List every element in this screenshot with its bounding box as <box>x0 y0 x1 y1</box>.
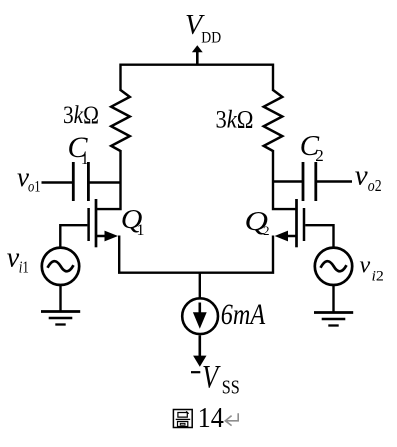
node vo1 label <box>17 162 41 196</box>
capacitor C2 <box>303 162 316 201</box>
svg-text:3kΩ: 3kΩ <box>63 102 99 129</box>
Q1 label <box>121 204 145 239</box>
node VDD label <box>185 10 221 46</box>
node vi1 label <box>7 242 29 276</box>
wire gate lead Q1 to source vi1 <box>60 225 87 247</box>
capacitor C1 <box>73 162 88 201</box>
resistor R1 <box>111 90 130 151</box>
wire output lead vo1 <box>42 181 73 183</box>
wire tail to current source <box>199 273 201 298</box>
source vi2 (AC source) <box>315 248 352 285</box>
svg-text:3kΩ: 3kΩ <box>216 106 254 133</box>
wire drain branch Q1 (resistor bottom to drain leg) <box>96 150 121 209</box>
node vo2 label <box>355 159 382 195</box>
svg-text:v: v <box>360 252 371 278</box>
svg-text:SS: SS <box>222 376 240 398</box>
svg-text:o1: o1 <box>28 179 41 196</box>
svg-text:DD: DD <box>201 30 221 47</box>
caption figure 14 (圖 drawn as strokes) <box>173 402 224 434</box>
svg-text:i2: i2 <box>372 269 384 285</box>
svg-text:1: 1 <box>81 151 89 168</box>
svg-text:v: v <box>355 159 368 191</box>
wire gate lead Q2 to source vi2 <box>305 225 333 247</box>
VDD supply arrow <box>192 45 203 63</box>
wire top supply rail with branch drops <box>121 65 274 91</box>
wire tail rail (sources to current source) <box>119 236 273 273</box>
svg-text:o2: o2 <box>368 176 382 195</box>
current source I1 6mA <box>182 298 218 334</box>
ground (left) <box>41 312 80 325</box>
svg-text:6mA: 6mA <box>221 298 266 331</box>
caption pilcrow return mark <box>225 413 238 425</box>
wire capacitor C2 tap <box>273 180 303 182</box>
source vi1 (AC source) <box>42 248 79 285</box>
C1 label <box>68 131 89 168</box>
transistor Q1 <box>89 199 118 247</box>
node vi2 label <box>360 252 384 284</box>
svg-text:2: 2 <box>263 223 270 238</box>
wire current source to -VSS with arrow <box>193 335 206 367</box>
Q2 label <box>245 206 270 238</box>
node -VSS label <box>191 359 240 399</box>
svg-text:1: 1 <box>137 222 145 239</box>
wire capacitor C1 tap <box>89 181 121 183</box>
svg-text:2: 2 <box>315 146 324 165</box>
ground (right) <box>314 313 353 326</box>
wire drain branch Q2 (resistor bottom to drain leg) <box>273 150 297 209</box>
C2 label <box>300 130 324 165</box>
wire output lead vo2 <box>317 180 352 182</box>
resistor R2 <box>264 90 283 151</box>
wire vi1 to ground <box>59 286 61 311</box>
wire vi2 to ground <box>332 286 334 312</box>
svg-text:V: V <box>202 359 221 395</box>
svg-text:i1: i1 <box>19 258 29 277</box>
transistor Q2 <box>275 199 304 247</box>
svg-text:14: 14 <box>198 402 225 434</box>
